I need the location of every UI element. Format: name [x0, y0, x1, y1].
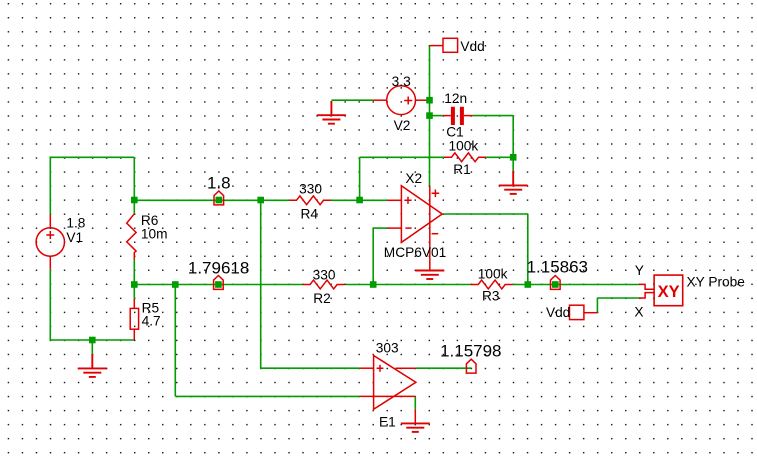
junction probe 1.8 — [216, 197, 223, 204]
junction X2 minus branch — [370, 281, 377, 288]
wire V1 top horizontal — [50, 156, 134, 158]
Y pin jog into XY probe — [639, 284, 654, 289]
ground V2 — [317, 101, 346, 124]
svg-text:330: 330 — [299, 182, 322, 197]
svg-text:XY: XY — [658, 283, 680, 301]
wire V1 top vertical — [49, 157, 51, 215]
wire bottom horizontal to R5 — [50, 339, 135, 341]
wire x134 between R6 and R5 — [133, 259, 135, 300]
op-amp X2 — [387, 186, 442, 271]
probe marker 1.15798 — [466, 359, 476, 373]
junction V1 ground — [89, 337, 96, 344]
svg-text:1.79618: 1.79618 — [188, 258, 249, 277]
wire E1 output — [416, 367, 472, 369]
svg-text:V1: V1 — [66, 230, 83, 245]
wire C1 right horizontal — [473, 115, 513, 117]
svg-text:XY Probe: XY Probe — [687, 275, 745, 290]
junction row1 to R1 — [356, 197, 363, 204]
wire vertical junction to R1 row — [359, 157, 361, 200]
op-amp E1 — [360, 356, 416, 424]
wire x134 above R6 — [133, 157, 135, 214]
svg-text:Vdd: Vdd — [460, 39, 484, 54]
junction probe 1.79618 — [215, 281, 222, 288]
wire R1 right — [486, 156, 513, 158]
resistor R3 — [471, 280, 513, 289]
svg-text:R2: R2 — [313, 291, 331, 306]
svg-text:R1: R1 — [453, 162, 471, 177]
wire row1 right of R4 — [331, 199, 387, 201]
junction node A row1 — [257, 197, 264, 204]
voltage source V2 — [373, 86, 430, 115]
svg-text:R4: R4 — [300, 206, 318, 221]
junction C1 supply — [426, 112, 433, 119]
X pin stub into XY probe — [639, 293, 654, 298]
wire X2 output horizontal — [444, 213, 528, 215]
wire E1 plus horizontal — [261, 367, 360, 369]
svg-text:1.8: 1.8 — [207, 174, 231, 193]
wire E1 minus horizontal — [175, 395, 359, 397]
wire X2 minus horizontal — [373, 227, 387, 229]
svg-text:4.7: 4.7 — [142, 313, 161, 328]
svg-text:1.8: 1.8 — [66, 215, 85, 230]
wire R1 left — [360, 156, 444, 158]
wire V2 left to ground — [331, 99, 373, 101]
capacitor C1 — [451, 107, 464, 125]
resistor R2 — [303, 280, 345, 289]
svg-text:E1: E1 — [379, 414, 396, 429]
wire vertical junction to X2 minus — [372, 228, 374, 284]
svg-text:303: 303 — [376, 341, 399, 356]
svg-text:10m: 10m — [141, 227, 168, 242]
Vdd terminal right — [570, 305, 598, 319]
junction X2 output row2 — [525, 281, 532, 288]
svg-text:MCP6V01: MCP6V01 — [384, 245, 446, 260]
wire row2 right segment — [513, 284, 639, 286]
junction row2 at R6/R5 node — [131, 281, 138, 288]
wire vertical to E1 minus — [174, 285, 176, 397]
wire row2 left segment — [134, 284, 302, 286]
wire Vdd supply vertical — [429, 46, 431, 186]
junction E1 minus branch — [172, 281, 179, 288]
wire X net horizontal — [597, 297, 638, 299]
probe marker 1.15863 — [551, 276, 561, 290]
svg-text:V2: V2 — [394, 118, 411, 133]
wire R1 ground green part — [512, 157, 514, 171]
svg-text:100k: 100k — [478, 267, 508, 282]
ground R1 — [499, 171, 528, 194]
svg-text:3.3: 3.3 — [392, 74, 411, 89]
wire C1 right down to R1 junction — [512, 116, 514, 158]
svg-text:X2: X2 — [405, 171, 422, 186]
svg-text:C1: C1 — [446, 125, 464, 140]
junction probe 1.15863 — [552, 281, 559, 288]
junction R1 ground — [510, 154, 517, 161]
wire V1 ground green part — [91, 340, 93, 354]
resistor R6 — [127, 214, 136, 259]
resistor R1 — [444, 153, 486, 162]
junction row1 at R6 top — [131, 197, 138, 204]
wire X2 output vertical down — [527, 214, 529, 285]
svg-text:12n: 12n — [444, 91, 467, 106]
ground X2 — [415, 271, 444, 280]
svg-text:330: 330 — [313, 268, 336, 283]
svg-text:100k: 100k — [449, 138, 479, 153]
wire E1 ground green part — [414, 396, 416, 409]
wire X net vertical from Vdd box — [596, 298, 598, 313]
junction V2 plus supply — [426, 97, 433, 104]
svg-text:R3: R3 — [482, 289, 500, 304]
probe marker 1.79618 — [214, 276, 224, 290]
ground V1 — [78, 354, 107, 377]
wire V1 bottom vertical — [49, 269, 51, 340]
XY probe box — [654, 275, 683, 306]
svg-text:Vdd: Vdd — [546, 305, 570, 320]
Vdd terminal top — [430, 38, 458, 52]
resistor R4 — [289, 196, 331, 205]
wire vertical node A down to E1 plus — [260, 200, 262, 368]
svg-text:1.15798: 1.15798 — [440, 341, 501, 360]
svg-text:1.15863: 1.15863 — [527, 257, 588, 276]
svg-text:Y: Y — [635, 263, 644, 278]
probe marker 1.8 — [214, 191, 224, 205]
svg-text:X: X — [634, 305, 643, 320]
wire C1 left horizontal — [430, 115, 444, 117]
voltage source V1 — [36, 215, 64, 270]
ground E1 — [401, 423, 430, 432]
resistor R5 — [130, 299, 138, 340]
wire row1 left segment — [134, 199, 289, 201]
wire row2 mid segment — [346, 284, 471, 286]
